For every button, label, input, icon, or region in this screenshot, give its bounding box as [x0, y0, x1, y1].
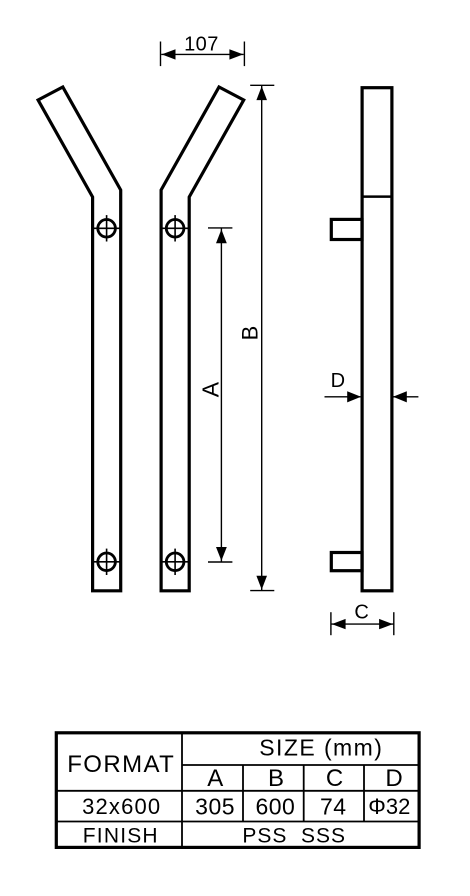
dimension A: top tick: [208, 227, 232, 229]
svg-text:SIZE (mm): SIZE (mm): [259, 735, 383, 761]
dimension D: right arrow: [393, 391, 418, 402]
svg-text:A: A: [207, 765, 223, 792]
table: row divider under SIZE header: [182, 764, 419, 766]
left handle front view outline: [38, 87, 121, 591]
hole top-right (circle with crosshair): [162, 215, 188, 241]
svg-text:B: B: [237, 326, 262, 341]
svg-text:600: 600: [255, 793, 295, 819]
dimension D: left arrow: [325, 391, 362, 402]
right handle front view outline: [161, 87, 244, 591]
side view: weld seam line: [362, 195, 392, 198]
side view: bottom standoff: [331, 553, 362, 571]
dimension C: line with arrowheads: [331, 619, 394, 629]
table: outer border: [56, 733, 419, 848]
table: column divider A/B: [242, 765, 244, 822]
svg-text:D: D: [331, 370, 345, 392]
table: vertical divider FORMAT/SIZE: [181, 733, 183, 848]
table: row divider above FINISH row: [56, 821, 419, 823]
table: column divider C/D: [363, 765, 365, 822]
dimension 107: line with arrowheads: [161, 49, 244, 59]
svg-text:32x600: 32x600: [82, 794, 161, 819]
side view: top standoff: [331, 219, 362, 239]
side view: main bar rectangle: [362, 88, 392, 591]
svg-text:FINISH: FINISH: [83, 825, 159, 848]
hole bottom-right (circle with crosshair): [162, 549, 188, 575]
svg-text:74: 74: [320, 793, 347, 819]
table: row divider under ABCD header: [56, 790, 419, 792]
table: column divider B/C: [303, 765, 305, 822]
dimension 107: extension ticks: [161, 42, 245, 67]
svg-text:305: 305: [195, 793, 235, 819]
svg-text:107: 107: [184, 33, 219, 55]
dimension B: vertical line with arrowheads: [256, 86, 267, 591]
dimension A: vertical line with arrowheads: [216, 228, 227, 562]
svg-text:FORMAT: FORMAT: [67, 751, 175, 778]
svg-text:B: B: [268, 765, 284, 792]
svg-text:Φ32: Φ32: [368, 794, 410, 819]
hole bottom-left (circle with crosshair): [93, 549, 119, 575]
dimension C: extension ticks: [331, 612, 394, 635]
dimension A: bottom tick: [208, 561, 232, 563]
svg-text:C: C: [354, 602, 368, 624]
svg-text:C: C: [326, 765, 343, 792]
dimension B: top tick: [250, 84, 274, 86]
svg-text:PSS SSS: PSS SSS: [242, 825, 346, 848]
svg-text:A: A: [197, 381, 223, 397]
dimension B: bottom tick: [250, 590, 274, 592]
hole top-left (circle with crosshair): [93, 215, 119, 241]
svg-text:D: D: [385, 765, 402, 792]
